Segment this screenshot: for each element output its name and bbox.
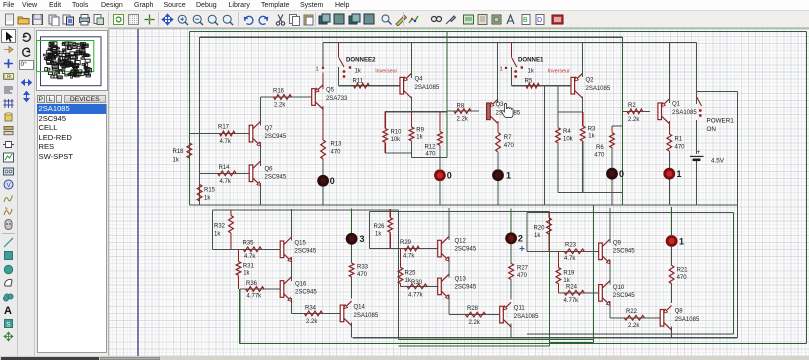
svg-text:0: 0 [330, 176, 335, 186]
svg-text:1: 1 [679, 236, 684, 246]
wire POWER1 switch drop [696, 43, 698, 105]
svg-text:R6: R6 [596, 145, 604, 151]
svg-text:R33: R33 [357, 265, 369, 271]
wire LED1b to R21 [671, 247, 673, 265]
wire bottom green rail [240, 342, 807, 344]
svg-text:3: 3 [360, 234, 365, 244]
svg-text:2SA1085: 2SA1085 [514, 314, 539, 320]
resistor R4 [556, 128, 561, 143]
svg-text:2.2k: 2.2k [457, 117, 469, 123]
svg-text:R27: R27 [517, 266, 529, 272]
svg-text:Q4: Q4 [415, 77, 424, 83]
svg-text:2SC945: 2SC945 [265, 134, 287, 140]
wire R25 top lead [400, 249, 402, 268]
resistor R33 [349, 263, 354, 277]
wire R9 top lead [411, 112, 413, 127]
wire R12 top lead [439, 112, 441, 132]
wire R9 bottom drop [411, 141, 413, 158]
LED D-0b [434, 169, 446, 181]
wire LED3 to R33 [351, 245, 353, 264]
svg-text:R30: R30 [411, 280, 423, 286]
wire R20 bottom lead [548, 234, 550, 251]
wire block2 box right [549, 212, 551, 346]
wire R25 bottom lead [400, 284, 402, 287]
wire Q7 emitter to Q6 collector [260, 142, 262, 166]
transistor Q1 (2SA1085 PNP) [658, 103, 662, 120]
wire R35 row to Q15 base [212, 248, 280, 250]
transistor Q5 (2SA733 PNP) [312, 89, 316, 106]
wire Q5 collector to R13 [322, 106, 324, 140]
resistor R30 [407, 284, 427, 289]
svg-text:R19: R19 [563, 271, 575, 277]
wire R26 bottom lead [389, 232, 391, 248]
wire bottom green lowest [399, 345, 550, 347]
svg-text:2: 2 [518, 234, 523, 244]
wire Q5 emitter up [322, 73, 324, 90]
svg-text:1k: 1k [528, 69, 535, 75]
wire R3 top lead [582, 112, 584, 126]
wire Q12 collector up [448, 208, 450, 240]
wire R34 row to Q14 base [292, 312, 341, 314]
svg-text:2SA1085: 2SA1085 [415, 85, 440, 91]
wire R10-R9 bottom link [385, 152, 411, 154]
svg-text:Q15: Q15 [295, 241, 307, 247]
svg-text:R18: R18 [173, 149, 185, 155]
svg-text:Q8: Q8 [675, 309, 684, 315]
wire R6 top lead [611, 126, 613, 133]
wire drop to R4 top [557, 86, 559, 128]
svg-text:Inverseur: Inverseur [548, 68, 570, 74]
svg-text:4.7k: 4.7k [220, 179, 232, 185]
svg-text:2.2k: 2.2k [274, 103, 286, 109]
wire power box top [697, 90, 738, 92]
wire green link [550, 341, 594, 343]
wire bottom link to green vertical [412, 157, 447, 159]
svg-text:+: + [697, 149, 701, 156]
wire Q3 emitter up [497, 43, 499, 103]
wire Q9 collector up [609, 208, 611, 243]
svg-text:R17: R17 [218, 125, 230, 131]
switch DONNEE2 [339, 58, 344, 67]
svg-text:1k: 1k [243, 271, 250, 277]
svg-text:R20: R20 [534, 226, 546, 232]
wire R8 row to Q3 base [447, 110, 479, 112]
svg-text:1k: 1k [405, 278, 412, 284]
svg-text:2.2k: 2.2k [628, 117, 640, 123]
svg-text:10k: 10k [391, 137, 402, 143]
wire top green rail [189, 30, 806, 32]
resistor R2 [627, 109, 643, 114]
wire LED1b top [671, 207, 673, 235]
svg-text:DONNEE2: DONNEE2 [346, 57, 376, 64]
wire block2 box left [369, 212, 371, 249]
svg-text:R24: R24 [566, 285, 578, 291]
svg-text:0: 0 [619, 169, 624, 179]
switch POWER1 [697, 97, 702, 106]
svg-text:2SC945: 2SC945 [455, 285, 477, 291]
wire under block B [558, 192, 622, 194]
resistor R26 [388, 218, 393, 233]
wire left green vertical (R18 branch) [188, 31, 190, 205]
svg-text:R14: R14 [219, 165, 231, 171]
svg-text:R3: R3 [588, 127, 596, 133]
transistor Q14 (2SA1085 PNP) [340, 305, 344, 322]
svg-text:1: 1 [506, 171, 511, 181]
wire Q4 emitter up [410, 43, 412, 79]
svg-text:10k: 10k [563, 137, 574, 143]
resistor R13 [321, 140, 326, 159]
wire Q2 emitter up [581, 43, 583, 78]
wire R26 top lead [389, 209, 391, 218]
resistor R8 [454, 109, 471, 114]
svg-text:1k: 1k [355, 69, 362, 75]
svg-text:R15: R15 [204, 188, 216, 194]
wire R23 row to Q9 base [527, 250, 599, 252]
wire R13 to LED [322, 159, 324, 175]
wire R27 to Q11 emitter [510, 280, 512, 300]
wire block3 box right [398, 210, 400, 340]
wire block3 left drop [239, 289, 241, 343]
wire R29 row to Q12 base [370, 248, 438, 250]
wire battery to mid rail [696, 161, 698, 206]
wire LED2 top [510, 209, 512, 233]
wire Q3 collector to R7 [497, 121, 499, 133]
svg-text:4.7k: 4.7k [564, 256, 576, 262]
svg-text:4.7k: 4.7k [244, 254, 256, 260]
resistor R18 [187, 143, 192, 158]
LED D-2 [505, 232, 517, 244]
wire R32 bottom lead [230, 233, 232, 249]
wire Q8 collector down [671, 327, 673, 338]
svg-text:Q13: Q13 [455, 277, 467, 283]
resistor R29 [404, 246, 419, 251]
svg-text:470: 470 [675, 145, 686, 151]
wire mid vertical x592 [592, 205, 594, 342]
svg-text:1k: 1k [375, 232, 382, 238]
svg-text:1k: 1k [214, 232, 221, 238]
wire green vertical x446 [446, 31, 448, 157]
wire R22 row to Q8 base [610, 317, 660, 319]
battery 4.5V [690, 155, 704, 157]
resistor R32 [229, 216, 234, 234]
svg-text:Q14: Q14 [354, 305, 366, 311]
wire right green vertical [806, 31, 808, 343]
transistor Q6 (2SC945 NPN) [249, 165, 253, 182]
wire R6 top link [612, 125, 622, 127]
svg-text:470: 470 [425, 152, 436, 158]
resistor R31 [236, 262, 241, 276]
LED D-1b [666, 235, 678, 247]
wire R14 row to Q6 base [200, 172, 250, 174]
svg-text:2SC945: 2SC945 [613, 293, 635, 299]
resistor R6 [610, 133, 615, 148]
svg-text:2.2k: 2.2k [469, 320, 481, 326]
wire DONNEE1 to R5 row [510, 67, 512, 86]
svg-text:1: 1 [677, 169, 682, 179]
wire LED2 to R27 [510, 244, 512, 263]
wire R19 top lead [557, 251, 559, 267]
svg-text:4.77k: 4.77k [408, 293, 424, 299]
svg-text:R29: R29 [400, 240, 412, 246]
svg-text:4.7k: 4.7k [403, 254, 415, 260]
transistor Q9 (2SC945 NPN) [599, 243, 603, 260]
resistor R23 [564, 249, 584, 254]
svg-text:2SA1085: 2SA1085 [354, 313, 379, 319]
svg-text:Q11: Q11 [514, 306, 526, 312]
wire R36 row to Q16 base [240, 288, 280, 290]
wire vertical x543 [543, 86, 545, 205]
wire R3 bottom drop [582, 141, 584, 193]
svg-text:Inverseur: Inverseur [375, 68, 397, 74]
svg-text:R32: R32 [214, 224, 226, 230]
svg-text:2SC945: 2SC945 [455, 247, 477, 253]
wire R28 row to Q11 base [449, 314, 499, 316]
wire middle horizontal rail [189, 204, 737, 206]
transistor Q16 (2SC945 NPN) [280, 281, 284, 298]
wire R19 bottom lead [557, 284, 559, 293]
svg-text:V: V [7, 182, 12, 189]
svg-text:1: 1 [316, 67, 319, 73]
svg-text:A: A [4, 305, 12, 316]
wire R31 bottom lead [238, 275, 240, 289]
wire left dark vertical (R15 branch) [199, 37, 201, 205]
wire R12 to LED [439, 145, 441, 169]
wire R30 row to Q13 base [401, 285, 438, 287]
resistor R21 [669, 265, 674, 283]
LED D-1t [492, 169, 504, 181]
svg-text:R1: R1 [675, 137, 683, 143]
wire block3 box top [212, 209, 398, 211]
wire R33 to Q14 emitter [351, 277, 353, 299]
svg-text:R31: R31 [243, 264, 255, 270]
svg-text:4.77k: 4.77k [564, 298, 580, 304]
svg-text:2SC945: 2SC945 [295, 249, 317, 255]
svg-text:R22: R22 [626, 309, 638, 315]
wire block1 box top [527, 212, 734, 214]
resistor R35 [243, 247, 261, 252]
wire block1 box right [733, 213, 735, 335]
svg-text:Q3: Q3 [496, 102, 505, 108]
svg-text:Q5: Q5 [326, 88, 335, 94]
svg-text:R34: R34 [305, 305, 317, 311]
svg-text:R9: R9 [416, 128, 424, 134]
transistor Q12 (2SC945 NPN) [438, 240, 442, 257]
svg-text:0: 0 [447, 171, 452, 181]
svg-text:Q9: Q9 [613, 241, 622, 247]
svg-text:Q7: Q7 [265, 126, 274, 132]
svg-text:2SC945: 2SC945 [265, 175, 287, 181]
svg-text:R35: R35 [243, 241, 255, 247]
svg-text:R21: R21 [677, 268, 689, 274]
wire R32 top lead [230, 210, 232, 216]
svg-text:1k: 1k [173, 158, 180, 164]
transistor Q8 (2SA1085 PNP) [660, 310, 664, 327]
svg-text:R8: R8 [457, 103, 465, 109]
svg-text:R13: R13 [331, 142, 343, 148]
svg-text:R25: R25 [405, 271, 417, 277]
svg-text:Q12: Q12 [455, 239, 467, 245]
svg-text:2SC945: 2SC945 [295, 290, 317, 296]
transistor Q7 (2SC945 NPN) [249, 125, 253, 142]
wire R24 row to Q10 base [558, 292, 598, 294]
wire LED to mid rail [322, 187, 324, 205]
svg-text:R10: R10 [391, 130, 403, 136]
wire Q16 emitter down [291, 298, 293, 313]
LED D-0a [317, 175, 329, 187]
resistor R16 [274, 95, 292, 100]
wire R5 row to Q2 base [511, 85, 571, 87]
wire switch to battery [696, 120, 698, 154]
wire power box right vertical [736, 91, 738, 337]
resistor R17 [220, 131, 236, 136]
wire LED0b to mid rail [439, 181, 441, 205]
wire Q7 collector up [260, 97, 262, 125]
wire R20 top lead [548, 213, 550, 218]
wire R10 top lead [384, 112, 386, 129]
svg-text:Q6: Q6 [265, 167, 274, 173]
switch DONNEE1 [512, 58, 517, 67]
wire R2 row to Q1 base [622, 110, 650, 112]
svg-text:Q1: Q1 [672, 102, 681, 108]
node origin marker [520, 246, 525, 251]
resistor R9 [409, 127, 414, 141]
resistor R36 [246, 287, 264, 292]
resistor R28 [466, 312, 486, 317]
wire Q9 emitter to Q10 collector [609, 260, 611, 285]
resistor R22 [624, 315, 644, 320]
svg-text:R16: R16 [273, 89, 285, 95]
svg-text:R11: R11 [353, 79, 364, 85]
svg-text:470: 470 [594, 153, 605, 159]
wire R16 row to Q5 base [261, 96, 314, 98]
svg-text:1: 1 [500, 67, 503, 73]
transistor Q4 (2SA1085 PNP) [400, 77, 404, 94]
svg-text:1k: 1k [416, 135, 423, 141]
wire R4/R3 top link [558, 111, 583, 113]
resistor R19 [556, 267, 561, 283]
svg-text:R26: R26 [374, 224, 386, 230]
svg-text:1k: 1k [563, 278, 570, 284]
sheet border (blue) [137, 29, 139, 357]
wire R21 to Q8 emitter [671, 284, 673, 303]
wire Q15 collector up [291, 209, 293, 240]
resistor R3 [580, 126, 585, 141]
svg-text:2SA1085: 2SA1085 [675, 317, 700, 323]
svg-text:R12: R12 [425, 145, 437, 151]
wire DONNEE2 to R11 row [338, 67, 340, 86]
transistor Q3 (2SA1085 PNP) [487, 103, 491, 120]
svg-text:POWER1: POWER1 [707, 118, 735, 125]
svg-text:470: 470 [331, 150, 342, 156]
wire DONNEE2 contact drop [322, 43, 324, 69]
svg-text:2SA1085: 2SA1085 [586, 86, 611, 92]
wire R7 to LED1t [497, 152, 499, 169]
resistor R10 [383, 129, 388, 143]
wire R4 bottom drop [557, 143, 559, 193]
svg-text:4.7k: 4.7k [220, 139, 232, 145]
wire bottom dark rail [352, 337, 737, 339]
resistor R11 [354, 83, 370, 88]
wire Q1 emitter up [668, 43, 670, 103]
svg-text:Q2: Q2 [586, 78, 595, 84]
svg-text:1k: 1k [588, 134, 595, 140]
wire block3 box left [211, 210, 213, 249]
wire LED1tr to mid rail [668, 180, 670, 205]
transistor Q15 (2SC945 NPN) [280, 241, 284, 258]
svg-text:4.77k: 4.77k [247, 294, 263, 300]
svg-text:2.2k: 2.2k [306, 319, 318, 325]
resistor R1 [667, 134, 672, 151]
svg-text:4.5V: 4.5V [711, 158, 725, 165]
svg-text:B: B [523, 17, 528, 24]
svg-text:1k: 1k [204, 196, 211, 202]
wire second top rail [200, 36, 623, 38]
svg-text:D: D [537, 17, 542, 24]
wire Q14 collector down [351, 323, 353, 338]
wire DONNEE1 pole [510, 43, 512, 58]
wire LED3 top [351, 209, 353, 234]
resistor R7 [496, 133, 501, 152]
LED D-3 [346, 233, 358, 245]
resistor R34 [304, 311, 322, 316]
svg-text:R28: R28 [467, 306, 479, 312]
wire DONNEE2 pole [338, 43, 340, 58]
resistor R15 [197, 185, 202, 202]
svg-text:R7: R7 [504, 135, 512, 141]
wire R11 row to Q4 base [339, 85, 401, 87]
resistor R25 [398, 267, 403, 283]
LED D-1tr [663, 168, 675, 180]
wire R10 bottom lead [384, 142, 386, 153]
svg-text:R5: R5 [525, 79, 533, 85]
svg-text:470: 470 [357, 272, 368, 278]
wire block1 box bottom [527, 333, 734, 335]
wire LED1t to mid rail [497, 181, 499, 205]
wire Q11 collector down [510, 324, 512, 338]
svg-text:R4: R4 [563, 129, 571, 135]
wire LED0c to mid rail [611, 180, 613, 205]
svg-text:470: 470 [504, 143, 515, 149]
wire Q15 emitter to Q16 collector [291, 257, 293, 281]
wire third top rail (switch/emitter rail) [323, 42, 697, 44]
transistor Q11 (2SA1085 PNP) [500, 306, 504, 323]
wire block1 box left [526, 213, 528, 252]
resistor R27 [509, 263, 514, 279]
transistor Q2 (2SA1085 PNP) [571, 77, 575, 94]
wire Q6 emitter down [260, 183, 262, 205]
wire R10/R9/R12 top rail [385, 111, 447, 113]
svg-text:ON: ON [707, 126, 717, 133]
svg-text:DONNE1: DONNE1 [518, 57, 544, 64]
resistor R5 [526, 83, 539, 88]
wire Q1 collector to R1 [668, 121, 670, 134]
wire R1 to LED1tr [668, 151, 670, 168]
wire Q4 collector down [410, 97, 412, 112]
svg-text:R2: R2 [628, 103, 636, 109]
svg-text:2SC945: 2SC945 [613, 249, 635, 255]
wire Q10 emitter down [609, 301, 611, 318]
resistor R14 [218, 171, 236, 176]
svg-text:2SA733: 2SA733 [326, 96, 348, 102]
wire Q13 emitter down [448, 295, 450, 315]
svg-text:S: S [6, 321, 11, 328]
transistor Q10 (2SC945 NPN) [599, 285, 603, 302]
svg-text:Q16: Q16 [295, 282, 307, 288]
LED D-0c [606, 168, 618, 180]
wire bottom green inner [399, 339, 594, 341]
svg-text:Q10: Q10 [613, 285, 625, 291]
wire block2 box top [370, 211, 550, 213]
